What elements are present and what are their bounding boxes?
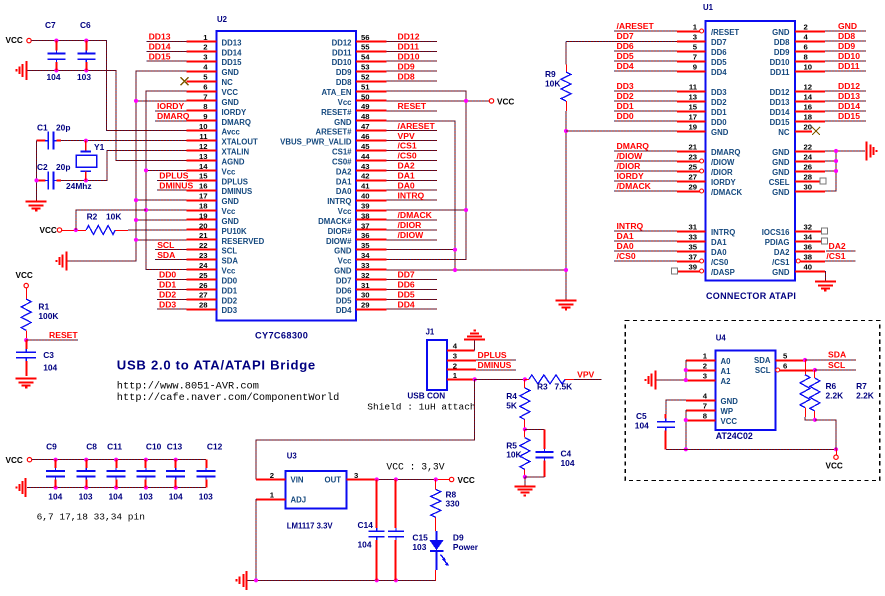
svg-text:50: 50 (361, 92, 370, 101)
svg-text:20p: 20p (56, 162, 70, 172)
pin circle U1 pin 38 (796, 259, 800, 263)
svg-text:NC: NC (222, 78, 234, 87)
R6 top lead (805, 360, 807, 375)
svg-text:DD5: DD5 (398, 290, 415, 300)
wire to C4 top (525, 428, 545, 430)
junction GND pin7 (134, 99, 138, 103)
junction Y1 top (84, 139, 88, 143)
svg-text:R2: R2 (87, 212, 98, 222)
svg-text:20p: 20p (56, 123, 70, 133)
wire net DD15 U1 pin 18 (825, 120, 866, 122)
R8 bottom lead (435, 517, 437, 531)
capacitor C1 (37, 132, 62, 150)
wire U1 pin26 GND (825, 170, 836, 172)
wire U1 pin40 GND (824, 271, 826, 281)
svg-text:22: 22 (804, 142, 813, 151)
svg-text:DA2: DA2 (398, 161, 415, 171)
wire net DMINUS (157, 189, 186, 191)
junction C13 bottom (174, 485, 178, 489)
wire net DD5 U1 pin 7 (614, 60, 677, 62)
svg-text:DD15: DD15 (770, 118, 791, 127)
wire net IORDY U1 pin 27 (614, 180, 677, 182)
D9 cathode lead (435, 570, 437, 580)
svg-text:DD13: DD13 (838, 91, 860, 101)
svg-text:33: 33 (361, 261, 370, 270)
svg-text:DMINUS: DMINUS (159, 180, 193, 190)
R6 bottom lead (805, 408, 807, 417)
svg-text:DMARQ: DMARQ (711, 148, 740, 157)
svg-text:DA2: DA2 (336, 167, 352, 176)
U2 right pin names (280, 38, 352, 315)
capacitor C15 (388, 480, 404, 581)
wire net /ARESET (386, 130, 437, 132)
pin circle U1 pin 23 (700, 159, 704, 163)
svg-text:103: 103 (139, 492, 153, 502)
resistor R5 (520, 438, 530, 470)
svg-text:CS0#: CS0# (332, 157, 352, 166)
svg-text:DA0: DA0 (398, 180, 415, 190)
svg-text:DD2: DD2 (222, 296, 238, 305)
capacitor C5 (657, 414, 675, 449)
U1 left pin stubs (677, 32, 706, 272)
junction RESET node (24, 338, 28, 342)
wire VCC terminal to VCC bus (76, 210, 146, 230)
junction GND pin24 (834, 159, 838, 163)
svg-text:IORDY: IORDY (711, 178, 736, 187)
svg-text:C8: C8 (86, 441, 97, 451)
pin circle U1 pin 37 (700, 259, 704, 263)
svg-text:A0: A0 (721, 357, 732, 366)
svg-text:SCL: SCL (828, 360, 845, 370)
svg-text:http://www.8051-AVR.com: http://www.8051-AVR.com (117, 380, 259, 392)
R7 top lead (814, 370, 816, 378)
pin circle U4 pin 6 (776, 368, 780, 372)
wire R2 to U2 pin20 PU10K (128, 229, 187, 231)
VCC terminal at R2 (57, 228, 61, 232)
svg-text:DD14: DD14 (770, 108, 791, 117)
svg-text:5K: 5K (506, 400, 517, 410)
IC U2 CY7C68300 body (217, 31, 357, 321)
R5 bottom lead (524, 469, 526, 477)
svg-text:55: 55 (361, 43, 370, 52)
junction C11 bottom (114, 485, 118, 489)
junction ADJ rail (254, 578, 258, 582)
junction VCC pin50 (464, 99, 468, 103)
svg-text:U3: U3 (287, 451, 298, 460)
wire R9 top (565, 41, 567, 64)
wire net SDA (155, 259, 187, 261)
svg-text:GND: GND (711, 128, 729, 137)
svg-text:CONNECTOR ATAPI: CONNECTOR ATAPI (706, 291, 796, 301)
svg-text:U2: U2 (217, 15, 228, 24)
svg-text:7: 7 (693, 52, 697, 61)
U3 pin names (291, 476, 342, 505)
connector U1 ATAPI body (706, 21, 795, 281)
svg-text:56: 56 (361, 33, 370, 42)
wire U1 pin22 GND to earth (825, 150, 865, 152)
svg-text:DD1: DD1 (711, 108, 727, 117)
wire net DD5 (386, 298, 437, 300)
wire U3 ADJ to ground rail (255, 499, 257, 580)
capacitor C11 (107, 460, 126, 488)
wire net DA1 (386, 179, 437, 181)
svg-text:INTRQ: INTRQ (327, 197, 351, 206)
R1 bottom lead (26, 330, 28, 340)
VCC terminal U4 (834, 455, 838, 459)
ground earth bottom caps (17, 478, 26, 497)
svg-text:VCC: VCC (826, 462, 843, 471)
svg-text:DD11: DD11 (838, 61, 860, 71)
svg-text:GND: GND (772, 148, 790, 157)
VCC terminal top-left (27, 38, 31, 42)
svg-text:VIN: VIN (291, 476, 304, 485)
svg-text:104: 104 (47, 72, 61, 82)
wire net VPV (386, 140, 437, 142)
svg-text:/DMACK: /DMACK (711, 188, 743, 197)
svg-text:4: 4 (804, 32, 809, 41)
wire U4 GND to C5 (666, 400, 686, 415)
svg-text:47: 47 (361, 122, 370, 131)
wire U2 pin39 Vcc (386, 209, 466, 211)
junction SDA R6 (803, 358, 807, 362)
svg-text:Y1: Y1 (94, 142, 105, 152)
svg-text:RESET: RESET (49, 330, 78, 340)
svg-text:/CS0: /CS0 (711, 258, 729, 267)
no-connect X on U2 pin 5 (181, 77, 189, 85)
svg-text:VCC: VCC (497, 97, 514, 106)
wire VCC rail bottom caps (32, 459, 206, 461)
svg-text:19: 19 (688, 122, 697, 131)
svg-text:DD4: DD4 (617, 61, 634, 71)
wire net /CS1 U1 pin38 (825, 260, 855, 262)
svg-text:1: 1 (453, 371, 458, 380)
svg-text:49: 49 (361, 102, 370, 111)
svg-text:A1: A1 (721, 367, 732, 376)
U2 right pin numbers 29-56 (361, 33, 370, 310)
svg-text:VCC: VCC (721, 417, 738, 426)
wire U2 pin35 GND (386, 249, 455, 251)
svg-text:3: 3 (693, 32, 697, 41)
svg-text:GND: GND (772, 28, 790, 37)
svg-text:54: 54 (361, 53, 370, 62)
pin circle U1 pin 25 (700, 169, 704, 173)
wire U1 pin19 GND (566, 130, 677, 132)
svg-text:31: 31 (361, 281, 370, 290)
wire U4 A0 A1 A2 bus (685, 360, 687, 380)
svg-text:25: 25 (688, 162, 697, 171)
svg-text:DD14: DD14 (838, 101, 860, 111)
junction GND pin26 (834, 169, 838, 173)
U4 pin names (721, 356, 771, 426)
svg-text:DMINUS: DMINUS (222, 187, 253, 196)
wire GND pins 22-30 (825, 151, 836, 191)
svg-text:DD7: DD7 (711, 38, 727, 47)
svg-text:DD12: DD12 (770, 88, 791, 97)
svg-text:C13: C13 (167, 441, 183, 451)
svg-text:103: 103 (412, 542, 426, 552)
wire net DD15 (146, 60, 186, 62)
svg-text:DD9: DD9 (398, 61, 415, 71)
junction GND pin35 (453, 248, 457, 252)
svg-text:GND: GND (334, 247, 352, 256)
svg-text:DD0: DD0 (159, 270, 176, 280)
svg-text:C14: C14 (358, 520, 374, 530)
svg-text:10K: 10K (545, 79, 560, 89)
svg-text:19: 19 (199, 211, 208, 220)
junction C8 top (84, 458, 88, 462)
wire net DD4 U1 pin 9 (614, 70, 677, 72)
junction C6 top (84, 39, 88, 43)
svg-text:DD15: DD15 (149, 51, 171, 61)
wire net DD13 (146, 40, 186, 42)
svg-text:GND: GND (222, 197, 240, 206)
svg-text:RESET#: RESET# (321, 108, 352, 117)
svg-text:36: 36 (361, 231, 370, 240)
U2 left pin names (222, 38, 265, 315)
svg-text:38: 38 (804, 252, 813, 261)
R9 bottom lead (566, 101, 568, 111)
svg-text:DD0: DD0 (617, 111, 634, 121)
wire net /DIOW U1 pin 23 (614, 160, 677, 162)
svg-text:SDA: SDA (222, 257, 239, 266)
svg-text:20: 20 (199, 221, 208, 230)
svg-text:DD10: DD10 (838, 51, 860, 61)
svg-text:/CS0: /CS0 (398, 151, 417, 161)
svg-text:14: 14 (199, 162, 208, 171)
junction C15 top (394, 477, 398, 481)
svg-text:39: 39 (688, 262, 697, 271)
svg-text:16: 16 (199, 182, 208, 191)
svg-text:/ARESET: /ARESET (617, 21, 655, 31)
svg-text:C1: C1 (37, 123, 48, 133)
svg-text:23: 23 (199, 251, 208, 260)
svg-text:DD9: DD9 (774, 48, 790, 57)
wire net DD14 U1 pin 16 (825, 110, 866, 112)
svg-text:9: 9 (693, 62, 697, 71)
svg-text:35: 35 (688, 242, 697, 251)
wire net VPV (574, 378, 601, 380)
U3 pin stubs (256, 480, 377, 500)
svg-text:DA0: DA0 (336, 187, 352, 196)
junction R5 C4 ground (523, 475, 527, 479)
svg-text:35: 35 (361, 241, 370, 250)
wire net INTRQ U1 pin 31 (614, 230, 677, 232)
svg-text:WP: WP (721, 407, 734, 416)
R8 top lead (435, 480, 437, 490)
U1 right pin numbers (804, 22, 813, 271)
resistor R1 (21, 299, 31, 330)
svg-text:2.2K: 2.2K (856, 391, 874, 401)
junction GND pin19 (134, 218, 138, 222)
capacitor C8 (77, 460, 96, 488)
capacitor C9 (46, 460, 65, 488)
svg-text:5: 5 (783, 351, 788, 360)
svg-text:22: 22 (199, 241, 208, 250)
R3 right lead (565, 379, 574, 381)
wire RESET net (26, 339, 78, 341)
J1 pin stubs (447, 351, 476, 380)
wire net DD13 U1 pin 14 (825, 100, 866, 102)
svg-text:DD0: DD0 (711, 118, 727, 127)
svg-text:8: 8 (804, 52, 809, 61)
capacitor C3 (16, 340, 36, 376)
svg-text:PDIAG: PDIAG (765, 238, 790, 247)
wire net DD2 U1 pin 13 (614, 100, 677, 102)
svg-text:DA1: DA1 (336, 177, 352, 186)
svg-text:31: 31 (688, 222, 697, 231)
junction Y1 bottom (84, 178, 88, 182)
svg-text:53: 53 (361, 63, 370, 72)
pin circle U1 pin 39 (700, 269, 704, 273)
svg-text:100K: 100K (38, 311, 58, 321)
wire net /CS0 (386, 159, 437, 161)
svg-text:11: 11 (689, 82, 698, 91)
wire net RESET (386, 110, 437, 112)
svg-text:GND: GND (222, 68, 240, 77)
svg-text:7: 7 (703, 401, 707, 410)
junction C7 top (54, 39, 58, 43)
wire net /DMACK U1 pin 29 (614, 190, 677, 192)
svg-text:18: 18 (199, 201, 208, 210)
svg-text:A2: A2 (721, 377, 732, 386)
wire net DD6 U1 pin 5 (614, 50, 677, 52)
svg-text:1: 1 (270, 491, 275, 500)
wire U4 VCC rail (666, 448, 836, 450)
U3 pin numbers (270, 471, 359, 500)
svg-text:10K: 10K (506, 450, 521, 460)
resistor R4 (520, 388, 530, 420)
svg-text:26: 26 (804, 162, 813, 171)
wire net DMINUS J1 (476, 369, 516, 371)
svg-text:/DMACK: /DMACK (617, 181, 652, 191)
svg-text:DD6: DD6 (617, 41, 634, 51)
svg-text:C9: C9 (46, 441, 57, 451)
svg-text:103: 103 (79, 492, 93, 502)
svg-text:DD14: DD14 (222, 48, 243, 57)
wire C2 Y1 to U2 pin12 XTALIN (61, 151, 187, 181)
wire R6 bottom to R7 (805, 417, 815, 420)
junction C14 bottom (375, 578, 379, 582)
U4 right pin stubs (776, 361, 815, 371)
svg-text:DPLUS: DPLUS (159, 171, 188, 181)
svg-text:30: 30 (804, 182, 813, 191)
svg-text:3: 3 (703, 371, 707, 380)
svg-text:24Mhz: 24Mhz (66, 181, 92, 191)
svg-text:Power: Power (453, 542, 479, 552)
wire GND to U2 pin21 (136, 239, 187, 241)
svg-text:Vcc: Vcc (222, 207, 237, 216)
svg-text:ATA_EN: ATA_EN (321, 88, 351, 97)
svg-text:SCL: SCL (755, 366, 771, 375)
svg-text:/DIOW: /DIOW (711, 158, 735, 167)
svg-text:http://cafe.naver.com/Componen: http://cafe.naver.com/ComponentWorld (117, 392, 339, 404)
connector J1 body (427, 340, 447, 390)
wire VCC to U2 pin14 (146, 169, 187, 171)
U1 left pin numbers (688, 22, 697, 271)
svg-text:GND: GND (334, 267, 352, 276)
svg-text:C12: C12 (207, 441, 223, 451)
wire VCC to U2 pin18 (146, 209, 187, 211)
R4 bottom lead (524, 420, 526, 430)
svg-text:SDA: SDA (754, 356, 771, 365)
svg-text:/DIOR: /DIOR (398, 220, 423, 230)
R5 top lead (524, 429, 526, 437)
junction U4 A1 (684, 368, 688, 372)
svg-text:3: 3 (453, 352, 457, 361)
svg-text:SCL: SCL (157, 240, 174, 250)
svg-text:25: 25 (199, 271, 208, 280)
capacitor C14 (369, 480, 385, 581)
svg-text:DPLUS: DPLUS (222, 177, 248, 186)
junction GND net (564, 268, 568, 272)
svg-text:6: 6 (804, 42, 808, 51)
ground below U1 pin40 (815, 282, 836, 291)
wire R6 R7 to VCC rail (815, 420, 836, 450)
wire net DD11 U1 pin 10 (825, 70, 866, 72)
svg-text:DA2: DA2 (829, 241, 846, 251)
wire GND bus U2 pin4 (68, 71, 187, 261)
junction SCL R7 (813, 368, 817, 372)
svg-text:DD3: DD3 (222, 306, 238, 315)
junction U4 rail (684, 447, 688, 451)
svg-text:C10: C10 (146, 441, 162, 451)
junction R3 R4 (523, 377, 527, 381)
wire net /DIOW (386, 239, 437, 241)
svg-text:48: 48 (361, 112, 370, 121)
pin circle U1 pin 1 (700, 29, 704, 33)
wire net DD9 U1 pin 6 (825, 50, 866, 52)
svg-text:DA1: DA1 (711, 238, 727, 247)
wire net DA2 U1 pin36 (826, 250, 855, 252)
svg-text:DD3: DD3 (159, 299, 176, 309)
svg-text:Shield : 1uH attach: Shield : 1uH attach (367, 401, 475, 412)
capacitor C12 (197, 460, 216, 488)
svg-text:DD0: DD0 (222, 277, 238, 286)
svg-text:14: 14 (804, 92, 813, 101)
svg-text:RESET: RESET (398, 101, 427, 111)
wire J1 pin1 to R3 R4 (475, 378, 525, 380)
svg-text:16: 16 (804, 102, 813, 111)
svg-text:DD10: DD10 (398, 51, 420, 61)
svg-text:40: 40 (361, 192, 370, 201)
svg-text:DD1: DD1 (617, 101, 634, 111)
wire net DD10 U1 pin 8 (825, 60, 866, 62)
junction C8 bottom (84, 485, 88, 489)
wire net DD0 (157, 279, 187, 281)
svg-text:2: 2 (453, 361, 457, 370)
svg-text:DD5: DD5 (336, 296, 352, 305)
svg-text:29: 29 (688, 182, 697, 191)
svg-text:DA0: DA0 (617, 241, 634, 251)
svg-text:/DIOW: /DIOW (617, 151, 644, 161)
wire net DD1 (157, 288, 187, 290)
svg-text:/DIOR: /DIOR (711, 168, 733, 177)
svg-text:USB CON: USB CON (407, 391, 445, 400)
svg-text:104: 104 (48, 492, 62, 502)
svg-text:DD12: DD12 (398, 32, 420, 42)
svg-text:/CS1: /CS1 (772, 258, 790, 267)
svg-text:GND: GND (772, 188, 790, 197)
wire GND rail bottom caps (27, 487, 206, 489)
ground earth right of U1 (867, 142, 877, 161)
wire U1 pin24 GND (825, 160, 836, 162)
U1 right pin stubs (795, 32, 825, 272)
svg-text:RESERVED: RESERVED (222, 237, 265, 246)
wire net DA0 U1 pin 35 (614, 250, 677, 252)
svg-text:/DASP: /DASP (711, 268, 735, 277)
wire VCC 3.3V rail (377, 479, 437, 481)
svg-text:37: 37 (688, 252, 697, 261)
